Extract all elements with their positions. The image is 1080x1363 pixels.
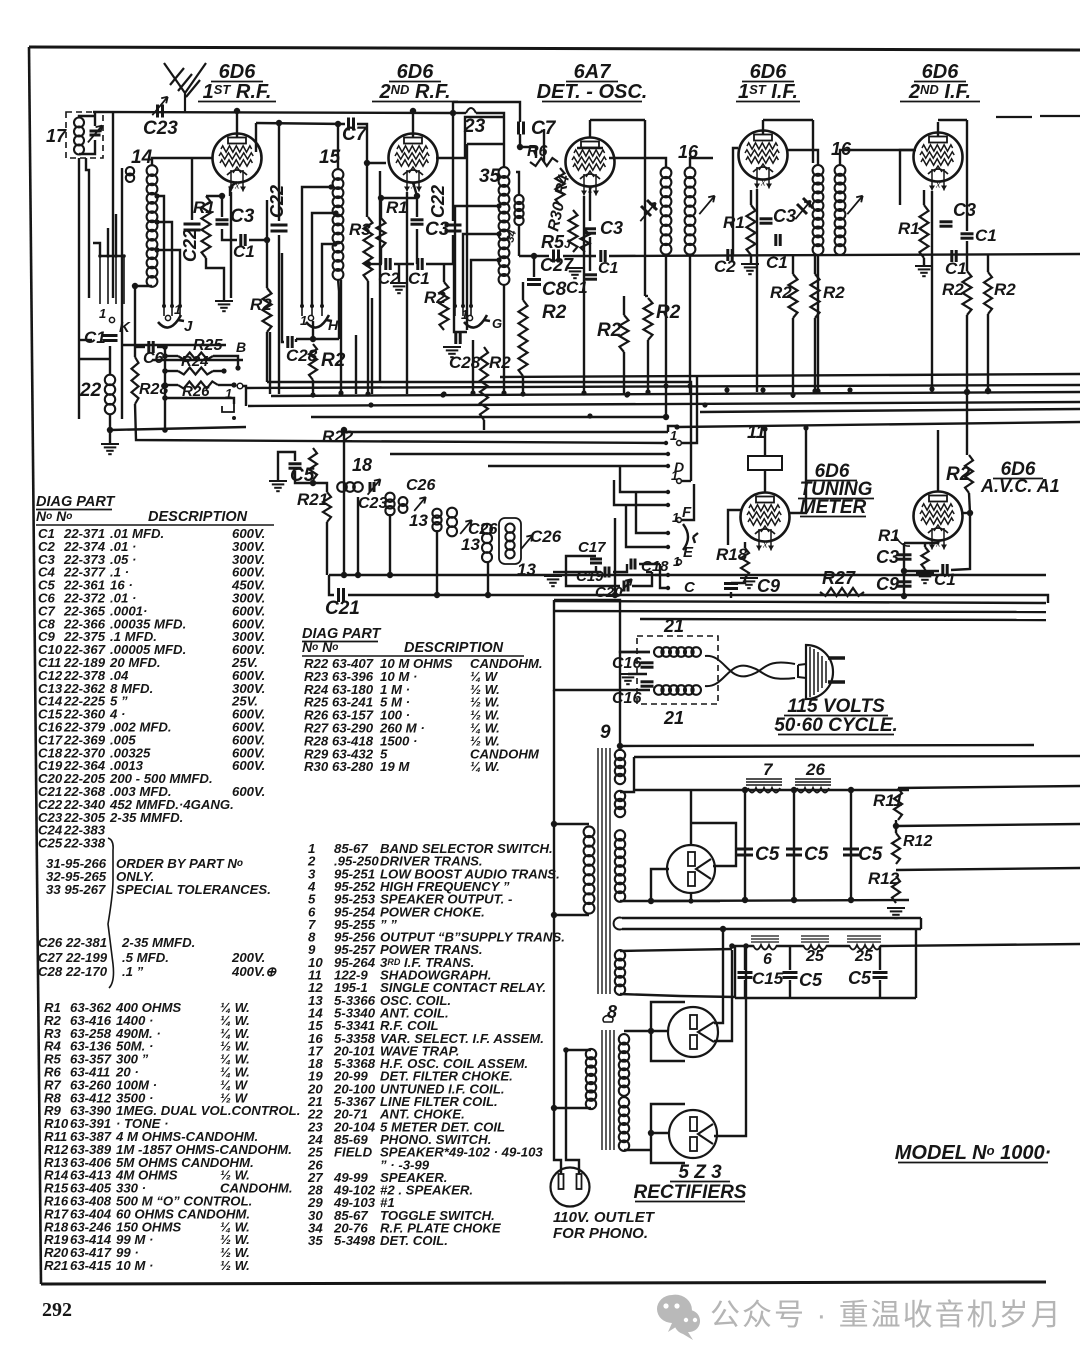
wire gnd bus 430: [110, 427, 246, 430]
svg-text:C17: C17: [578, 539, 606, 556]
list header DESCRIPTION 2: [404, 640, 504, 656]
choke 7: [746, 779, 782, 793]
wire if1 sec bottom: [689, 254, 691, 394]
list row item 29: [307, 1195, 395, 1210]
shield box coil 13c: [499, 518, 521, 564]
node avc col 392: [964, 389, 970, 395]
resistor R25: [178, 353, 213, 360]
capacitor C5 f4: [783, 973, 798, 978]
node label R1 stage1: [193, 198, 215, 217]
list row item 27: [307, 1170, 447, 1185]
svg-text:C22: C22: [267, 185, 287, 218]
svg-text:C18: C18: [641, 558, 669, 575]
list row R23 mid: [304, 669, 499, 684]
svg-text:C: C: [684, 579, 696, 596]
node label 6D6 2nd IF: [922, 61, 960, 83]
coil 16a primary: [661, 167, 672, 254]
list row C4: [38, 565, 265, 580]
capacitor C1 6a7: [585, 275, 597, 279]
wire bus y428: [344, 431, 668, 433]
wire c6 right: [157, 346, 165, 348]
node label C1 stage2: [408, 269, 430, 288]
node label 22: [79, 380, 102, 401]
capacitor C21: [339, 588, 344, 602]
wire avc cath2: [924, 543, 926, 547]
wire t9 sec4 bot: [620, 994, 735, 997]
svg-text:22: 22: [79, 380, 102, 401]
wire coil14 tap1: [158, 196, 164, 306]
svg-text:R2: R2: [770, 283, 792, 302]
wire r2avc2 top: [987, 255, 989, 272]
wire spk pair top: [622, 917, 921, 919]
tube V7 AVC: [914, 492, 963, 550]
wire c20 tie: [646, 571, 652, 573]
wire c15 bot: [744, 980, 746, 998]
list row item 25: [307, 1145, 543, 1160]
wire rect b bracket: [651, 1002, 685, 1061]
list row R13 value: [44, 1155, 254, 1170]
list brace: [108, 838, 114, 988]
wire dashed top right: [996, 116, 1080, 117]
wire sw feed5: [636, 492, 668, 533]
wire r2if2 drop: [814, 318, 816, 394]
list header DIAG PART 2 underline: [302, 641, 378, 643]
wire v344: [343, 430, 345, 575]
node label R27: [822, 568, 856, 588]
wire avc plate: [961, 512, 970, 514]
wire if2 pri bottom: [817, 254, 819, 394]
node label 50-60 CYCLE: [774, 715, 898, 736]
node label 1 H: [300, 313, 307, 328]
wire rect c in: [651, 1132, 669, 1134]
node bus junction 988-391: [985, 388, 990, 393]
node bus junction 932-389: [929, 386, 934, 391]
wire c15 top: [744, 946, 746, 970]
resistor R2 if1: [789, 274, 798, 318]
node bus junction 765-429: [762, 426, 767, 431]
list row C19: [38, 758, 265, 773]
ground stage5: [915, 266, 933, 276]
wire hook 1: [165, 398, 234, 404]
list row item 13: [308, 993, 451, 1008]
switch G prongs: [453, 304, 473, 316]
node bus junction 815-391: [812, 388, 817, 393]
coil 13a2: [399, 497, 408, 513]
svg-text:R2: R2: [597, 320, 622, 341]
tube V6 tuning meter: [741, 493, 790, 551]
node bus junction 666-386: [663, 383, 668, 388]
node label 6D6 1st IF underline: [742, 81, 794, 83]
wire j feed: [135, 285, 152, 287]
wire c28h left: [282, 253, 284, 342]
variable arrow c26c: [521, 535, 533, 549]
wire if1 pri bottom: [665, 254, 667, 417]
node label C18: [641, 558, 669, 575]
node tap c15 1: [328, 184, 333, 189]
coil 14 ant secondary: [147, 165, 158, 287]
list row R1 value: [44, 1000, 250, 1015]
list row R12 value: [44, 1142, 292, 1157]
svg-text:.5 MFD.: .5 MFD.: [122, 950, 169, 965]
svg-text:C3: C3: [953, 200, 976, 220]
capacitor C17: [590, 559, 602, 563]
node tap 371: [162, 368, 168, 374]
wire heater v3: [583, 196, 585, 394]
wire filter in top: [554, 600, 650, 652]
svg-text:J: J: [184, 318, 193, 335]
node label C1 stage1: [233, 242, 255, 261]
switch H prongs: [300, 304, 324, 316]
wire tube3 grid cap: [589, 120, 591, 137]
node tap c14 3: [154, 247, 159, 252]
node label 115 VOLTS: [787, 696, 885, 717]
wire tube2 plate: [436, 117, 504, 158]
wire box15 left bot: [266, 332, 268, 382]
svg-text:6A7: 6A7: [574, 61, 612, 83]
svg-text:F: F: [682, 504, 692, 521]
wire v358: [357, 497, 359, 575]
capacitor C5 f1: [737, 849, 753, 855]
wire bus y382: [380, 382, 691, 481]
node bus junction 444-394: [441, 391, 446, 396]
svg-text:1: 1: [461, 307, 468, 322]
resistor R5: [581, 230, 590, 252]
node label C27: [540, 255, 574, 275]
list row R21 value: [44, 1258, 250, 1273]
node label 1 sw2: [671, 468, 678, 483]
wire heater v5: [931, 191, 933, 392]
svg-text:R1: R1: [723, 213, 745, 232]
bead 8: [603, 1016, 613, 1022]
tube V1 6D6 1st RF: [213, 134, 262, 192]
wire rect b out2: [714, 950, 732, 1041]
wire left jog: [79, 358, 110, 360]
wire cathode drop1: [229, 187, 231, 196]
node label C3 stage1: [230, 206, 255, 227]
svg-text:MODEL No 1000·: MODEL No 1000·: [895, 1142, 1052, 1164]
wire box15 right: [379, 171, 381, 382]
wire v454 low: [452, 235, 454, 265]
ground c5: [269, 481, 287, 491]
svg-text:9: 9: [600, 722, 611, 743]
wire h bus: [296, 338, 339, 340]
svg-text:R18: R18: [716, 545, 748, 564]
node label R21: [297, 490, 328, 509]
node label C7 a: [342, 124, 368, 145]
svg-text:6: 6: [763, 951, 772, 968]
node label D: [674, 459, 684, 475]
svg-text:R12: R12: [903, 833, 932, 850]
capacitor C18: [631, 559, 635, 570]
node label 26: [805, 760, 825, 779]
resistor R2 6a7scr: [644, 298, 653, 340]
variable arrow c26b: [460, 520, 472, 534]
node bus junction 727-390: [724, 387, 729, 392]
svg-text:21: 21: [663, 708, 684, 728]
coil 35 det: [499, 167, 510, 285]
svg-text:.1 ”: .1 ”: [122, 964, 144, 979]
capacitor C2 stage4: [728, 249, 732, 261]
node label R1 stage5: [898, 219, 920, 238]
node label 21 top: [663, 616, 684, 636]
list row item 23: [307, 1119, 505, 1134]
AC plug: [798, 645, 845, 699]
svg-text:C3: C3: [600, 218, 623, 238]
wire avc column mid: [966, 241, 968, 271]
trimmer cap if1 left: [641, 200, 657, 216]
node label R1 stage2: [386, 198, 408, 217]
coil 23 ant choke: [466, 108, 476, 113]
node label 15: [319, 147, 341, 168]
list row C20: [38, 771, 213, 786]
wire v519: [518, 224, 520, 256]
list row R9 value: [44, 1103, 300, 1118]
resistor R2 stage1b: [263, 288, 272, 332]
wire avc bus2: [563, 255, 596, 257]
svg-text:50·60 CYCLE.: 50·60 CYCLE.: [774, 715, 898, 736]
ground stage4: [741, 264, 759, 274]
svg-text:13: 13: [461, 535, 480, 554]
svg-text:C19: C19: [576, 568, 604, 585]
svg-text:25: 25: [854, 948, 874, 965]
switch H wiper: [306, 315, 332, 328]
wire tube4 left: [733, 148, 738, 255]
svg-text:C1: C1: [598, 260, 619, 277]
node label B: [236, 339, 246, 355]
svg-text:DESCRIPTION: DESCRIPTION: [404, 640, 504, 656]
wire pwr line 760: [634, 756, 1080, 757]
wire sw wiper feed: [682, 377, 697, 443]
svg-text:600V.: 600V.: [232, 758, 265, 773]
wire v454: [452, 102, 454, 221]
trimmer cap if2 left: [797, 198, 813, 214]
node label 6D6 1st RF underline: [211, 81, 263, 83]
list row item 9: [308, 942, 483, 957]
svg-text:2-35 MMFD.: 2-35 MMFD.: [121, 935, 195, 950]
node label 23b: [463, 116, 486, 137]
wire spk pair bot: [622, 928, 921, 930]
wire tube4 grid cap: [762, 120, 764, 134]
svg-text:R27: R27: [822, 568, 856, 588]
node b term: [235, 365, 240, 370]
svg-text:C27: C27: [38, 950, 63, 965]
wire filter bottom bus: [651, 900, 909, 901]
node label G: [492, 316, 502, 331]
node label C28 g: [449, 353, 481, 372]
svg-text:R21: R21: [44, 1258, 68, 1273]
node label RECTIFIERS underline: [635, 1201, 745, 1203]
wire r1 gnd: [206, 258, 224, 301]
capacitor C15: [738, 973, 753, 978]
node label C: [684, 579, 696, 596]
variable arrow if1 right: [699, 196, 714, 214]
wire cnet stub: [553, 571, 566, 573]
choke 26: [795, 779, 831, 793]
wire c7 feed: [453, 102, 520, 122]
wire rect c out: [714, 946, 746, 1136]
svg-text:C21: C21: [325, 598, 360, 619]
wire bus y417: [311, 416, 666, 418]
wire filter low bus: [735, 997, 916, 999]
node c8 junction: [531, 253, 537, 259]
wire t8 tap bot: [554, 1107, 591, 1109]
svg-text:DET. COIL.: DET. COIL.: [380, 1233, 448, 1248]
wire bus y388: [246, 385, 1080, 388]
svg-text:2ND I.F.: 2ND I.F.: [908, 81, 971, 103]
node label TUNING: [800, 479, 873, 500]
svg-text:C28: C28: [38, 964, 63, 979]
switch G wiper: [464, 315, 490, 328]
wire c18 out: [639, 563, 660, 565]
list row C24: [38, 823, 106, 838]
node label R2 osc: [597, 320, 622, 341]
svg-text:C9: C9: [876, 574, 899, 594]
svg-text:METER: METER: [800, 497, 867, 518]
list row item 11: [308, 968, 491, 983]
node t9 746: [617, 743, 623, 749]
shadowgraph 11: [748, 456, 782, 470]
svg-text:1: 1: [670, 428, 677, 443]
node label C1 stage4a: [766, 253, 788, 272]
line filter box 21: [637, 636, 718, 704]
svg-text:6D6: 6D6: [219, 61, 257, 83]
node tap c15 2: [333, 210, 338, 215]
wire coil15 tap2: [312, 213, 336, 306]
svg-text:C26: C26: [406, 477, 435, 494]
svg-text:1: 1: [673, 554, 680, 569]
svg-text:6D6: 6D6: [922, 61, 960, 83]
list row item 21: [307, 1094, 498, 1109]
node tap 398: [162, 395, 168, 401]
wire h345: [122, 344, 226, 346]
svg-text:R11: R11: [873, 791, 903, 810]
wire v437: [436, 530, 438, 595]
node label E: [683, 544, 694, 561]
node avc plate: [967, 510, 973, 516]
coil 21 bottom: [654, 685, 701, 695]
field coil 6: [751, 936, 779, 950]
capacitor C1 stage5b: [952, 250, 956, 262]
page number 292: [42, 1299, 72, 1321]
coil 34 rf choke: [514, 195, 523, 225]
node 454 bus: [450, 110, 456, 116]
list row C22: [38, 797, 234, 812]
wire v503: [503, 284, 505, 394]
node h junction: [310, 336, 316, 342]
node label H: [328, 317, 339, 333]
resistor R1 stage5: [920, 205, 929, 258]
tube 5Z3 c: [669, 1110, 717, 1158]
list row R30 mid: [304, 759, 500, 774]
resistor R2 avc1: [965, 455, 973, 493]
wire avc column low: [966, 315, 968, 455]
antenna: [164, 63, 206, 112]
svg-text:R24: R24: [181, 353, 209, 370]
wire osc bottom bus2: [329, 575, 334, 595]
wire r2if1 drop: [792, 318, 794, 398]
node tap c35 1: [496, 203, 501, 208]
wire tube5 left: [900, 150, 913, 205]
list row C11: [38, 655, 258, 670]
capacitor C7: [519, 122, 524, 135]
capacitor C8: [527, 280, 541, 285]
wire page frame left: [29, 47, 41, 1284]
list header DIAG PART: [36, 494, 116, 510]
wire bus 23 seg2: [476, 113, 504, 168]
svg-text:C3: C3: [773, 206, 796, 226]
svg-text:R2: R2: [542, 302, 567, 323]
wire sw feed6: [626, 505, 668, 547]
wire r2if2 top: [814, 255, 816, 274]
coil 9 sec1: [615, 750, 625, 784]
node label R2 avc2: [994, 280, 1016, 299]
list row R29 mid: [304, 746, 540, 761]
wire c1 right1: [249, 239, 267, 241]
node label R1 avc: [878, 526, 900, 545]
list row R14 value: [44, 1168, 250, 1183]
wire lower bus d: [640, 619, 1046, 620]
svg-text:35: 35: [479, 166, 501, 187]
svg-text:DESCRIPTION: DESCRIPTION: [148, 509, 248, 525]
wire k up2: [115, 214, 117, 256]
node r24 term: [221, 368, 226, 373]
node bus junction 818-391: [815, 388, 820, 393]
node osc6: [612, 592, 618, 598]
resistor R1 avc zig: [921, 547, 928, 569]
node bus junction 523-394: [520, 391, 525, 396]
node label R25: [193, 337, 223, 354]
node label 6A7 underline: [566, 81, 618, 83]
svg-text:R2: R2: [994, 280, 1016, 299]
wire t9 pri bot: [556, 914, 589, 916]
node label R4: [552, 173, 573, 197]
coil 8 sec a: [619, 1034, 629, 1096]
wire r2avc2 bot: [987, 314, 989, 391]
node label 1st R.F.: [203, 81, 272, 103]
ground ant: [101, 444, 119, 454]
wave trap box 17: [66, 112, 103, 158]
node tap c14 2: [154, 219, 159, 224]
node c1 box: [264, 237, 270, 243]
wire h360: [152, 359, 243, 361]
resistor R2 stage2: [440, 282, 449, 330]
wire r26 out: [218, 384, 232, 386]
node tube2 grid feed: [364, 160, 370, 166]
svg-text:C16: C16: [612, 655, 641, 672]
node label 35: [479, 166, 501, 187]
svg-text:C22: C22: [180, 229, 200, 262]
node bus junction 628-394: [625, 391, 630, 396]
svg-text:C1: C1: [408, 269, 430, 288]
wire left vert x122: [121, 298, 123, 419]
wire bus y395: [271, 392, 1080, 396]
svg-text:22-170: 22-170: [65, 964, 108, 979]
node label TUNING underline: [798, 498, 874, 500]
node r12 t: [893, 823, 899, 829]
list row R19 value: [44, 1232, 250, 1247]
coil 8 primary: [586, 1049, 596, 1109]
resistor R30: [569, 210, 578, 252]
wire filter in bot: [554, 611, 650, 690]
ground c network: [544, 576, 562, 586]
svg-text:R1: R1: [193, 198, 215, 217]
list row C6: [38, 591, 265, 606]
list row C27: [38, 950, 265, 965]
svg-text:C3: C3: [876, 547, 899, 567]
svg-text:R2: R2: [424, 288, 446, 307]
node label C1 avcbus: [598, 260, 619, 277]
variable arrow C20: [620, 579, 632, 593]
